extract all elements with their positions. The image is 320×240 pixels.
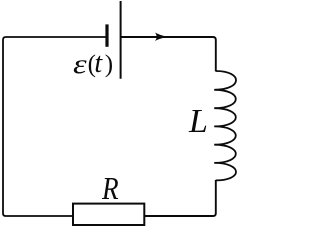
battery long plate: [120, 1, 122, 79]
inductor L coil: [214, 71, 236, 180]
wire: top-left + left + bottom-left run: [3, 37, 106, 216]
label R resistor: [102, 172, 119, 204]
label epsilon(t) source EMF: [73, 50, 114, 78]
battery short plate: [105, 24, 108, 46]
wire: top-right run from battery to top-right corner down to coil: [122, 37, 216, 72]
label L inductor: [189, 105, 208, 139]
resistor R box: [73, 204, 144, 225]
current direction arrow: [155, 33, 168, 42]
wire: bottom-right run from resistor to corner up to coil tail: [144, 180, 216, 216]
